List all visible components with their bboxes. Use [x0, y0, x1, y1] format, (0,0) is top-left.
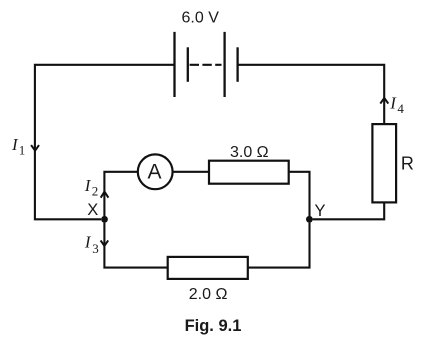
svg-text:Y: Y: [315, 202, 326, 220]
svg-text:1: 1: [19, 142, 26, 157]
svg-text:2: 2: [92, 183, 99, 198]
svg-text:Fig. 9.1: Fig. 9.1: [185, 317, 242, 335]
svg-text:3: 3: [92, 241, 99, 256]
svg-text:6.0 V: 6.0 V: [182, 10, 220, 27]
svg-text:4: 4: [397, 101, 404, 116]
svg-text:A: A: [147, 160, 161, 183]
svg-text:2.0 Ω: 2.0 Ω: [189, 286, 228, 303]
svg-text:3.0 Ω: 3.0 Ω: [230, 144, 269, 161]
svg-text:I: I: [84, 233, 92, 252]
svg-text:I: I: [84, 176, 92, 195]
svg-text:X: X: [87, 201, 98, 219]
svg-text:I: I: [389, 94, 397, 113]
svg-text:R: R: [401, 154, 414, 174]
